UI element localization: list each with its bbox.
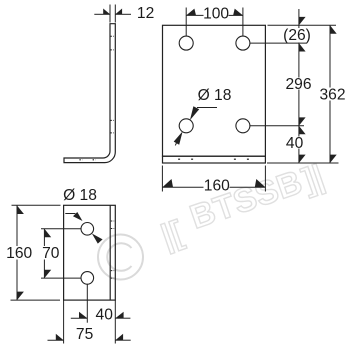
right-side extension lines (250, 9, 339, 163)
svg-text:296: 296 (285, 76, 311, 93)
flange band (163, 156, 266, 163)
svg-text:160: 160 (6, 245, 32, 262)
dimension 12 (94, 5, 131, 23)
svg-text:Ø 18: Ø 18 (198, 87, 232, 104)
right-side arrows (299, 17, 337, 163)
L-profile outline (64, 24, 115, 163)
svg-text:Ø 18: Ø 18 (63, 187, 97, 204)
hidden hole dashes on flange (79, 159, 95, 161)
svg-text:40: 40 (286, 135, 304, 152)
plate outline (163, 25, 266, 156)
dimension 160 left (11, 205, 61, 300)
svg-text:362: 362 (319, 86, 345, 103)
svg-text:100: 100 (203, 5, 229, 22)
hole lower (81, 272, 94, 285)
flange outline (64, 205, 116, 300)
svg-text:40: 40 (96, 307, 114, 324)
dimension 70 (41, 229, 81, 278)
inner dimension line segments (298, 9, 300, 28)
bend line (109, 205, 111, 300)
dimension 40 bottom view (71, 284, 131, 343)
dimension 75 (48, 300, 131, 343)
leader for diameter 18 top view (65, 213, 75, 215)
dimension 100 (186, 8, 243, 37)
hole top-left (179, 36, 193, 50)
svg-text:160: 160 (204, 178, 230, 195)
hidden plate-hole dashes (111, 221, 114, 278)
svg-text:(26): (26) (283, 27, 311, 44)
hole top-right (236, 36, 250, 50)
hole bottom-right (236, 119, 250, 133)
watermark BTSSB text (156, 157, 328, 255)
svg-text:12: 12 (137, 5, 154, 22)
hole bottom-left (179, 119, 193, 133)
watermark copyright symbol (98, 235, 143, 280)
hidden hole dashes on vertical strip (110, 36, 113, 133)
outer dimension line segments (329, 25, 331, 87)
hole upper (81, 223, 94, 236)
svg-text:75: 75 (76, 326, 94, 343)
leader for diameter 18 front (175, 108, 217, 146)
dimension 160 bottom of front view (162, 166, 265, 192)
svg-text:70: 70 (42, 245, 60, 262)
flange hole dashes (178, 158, 249, 160)
